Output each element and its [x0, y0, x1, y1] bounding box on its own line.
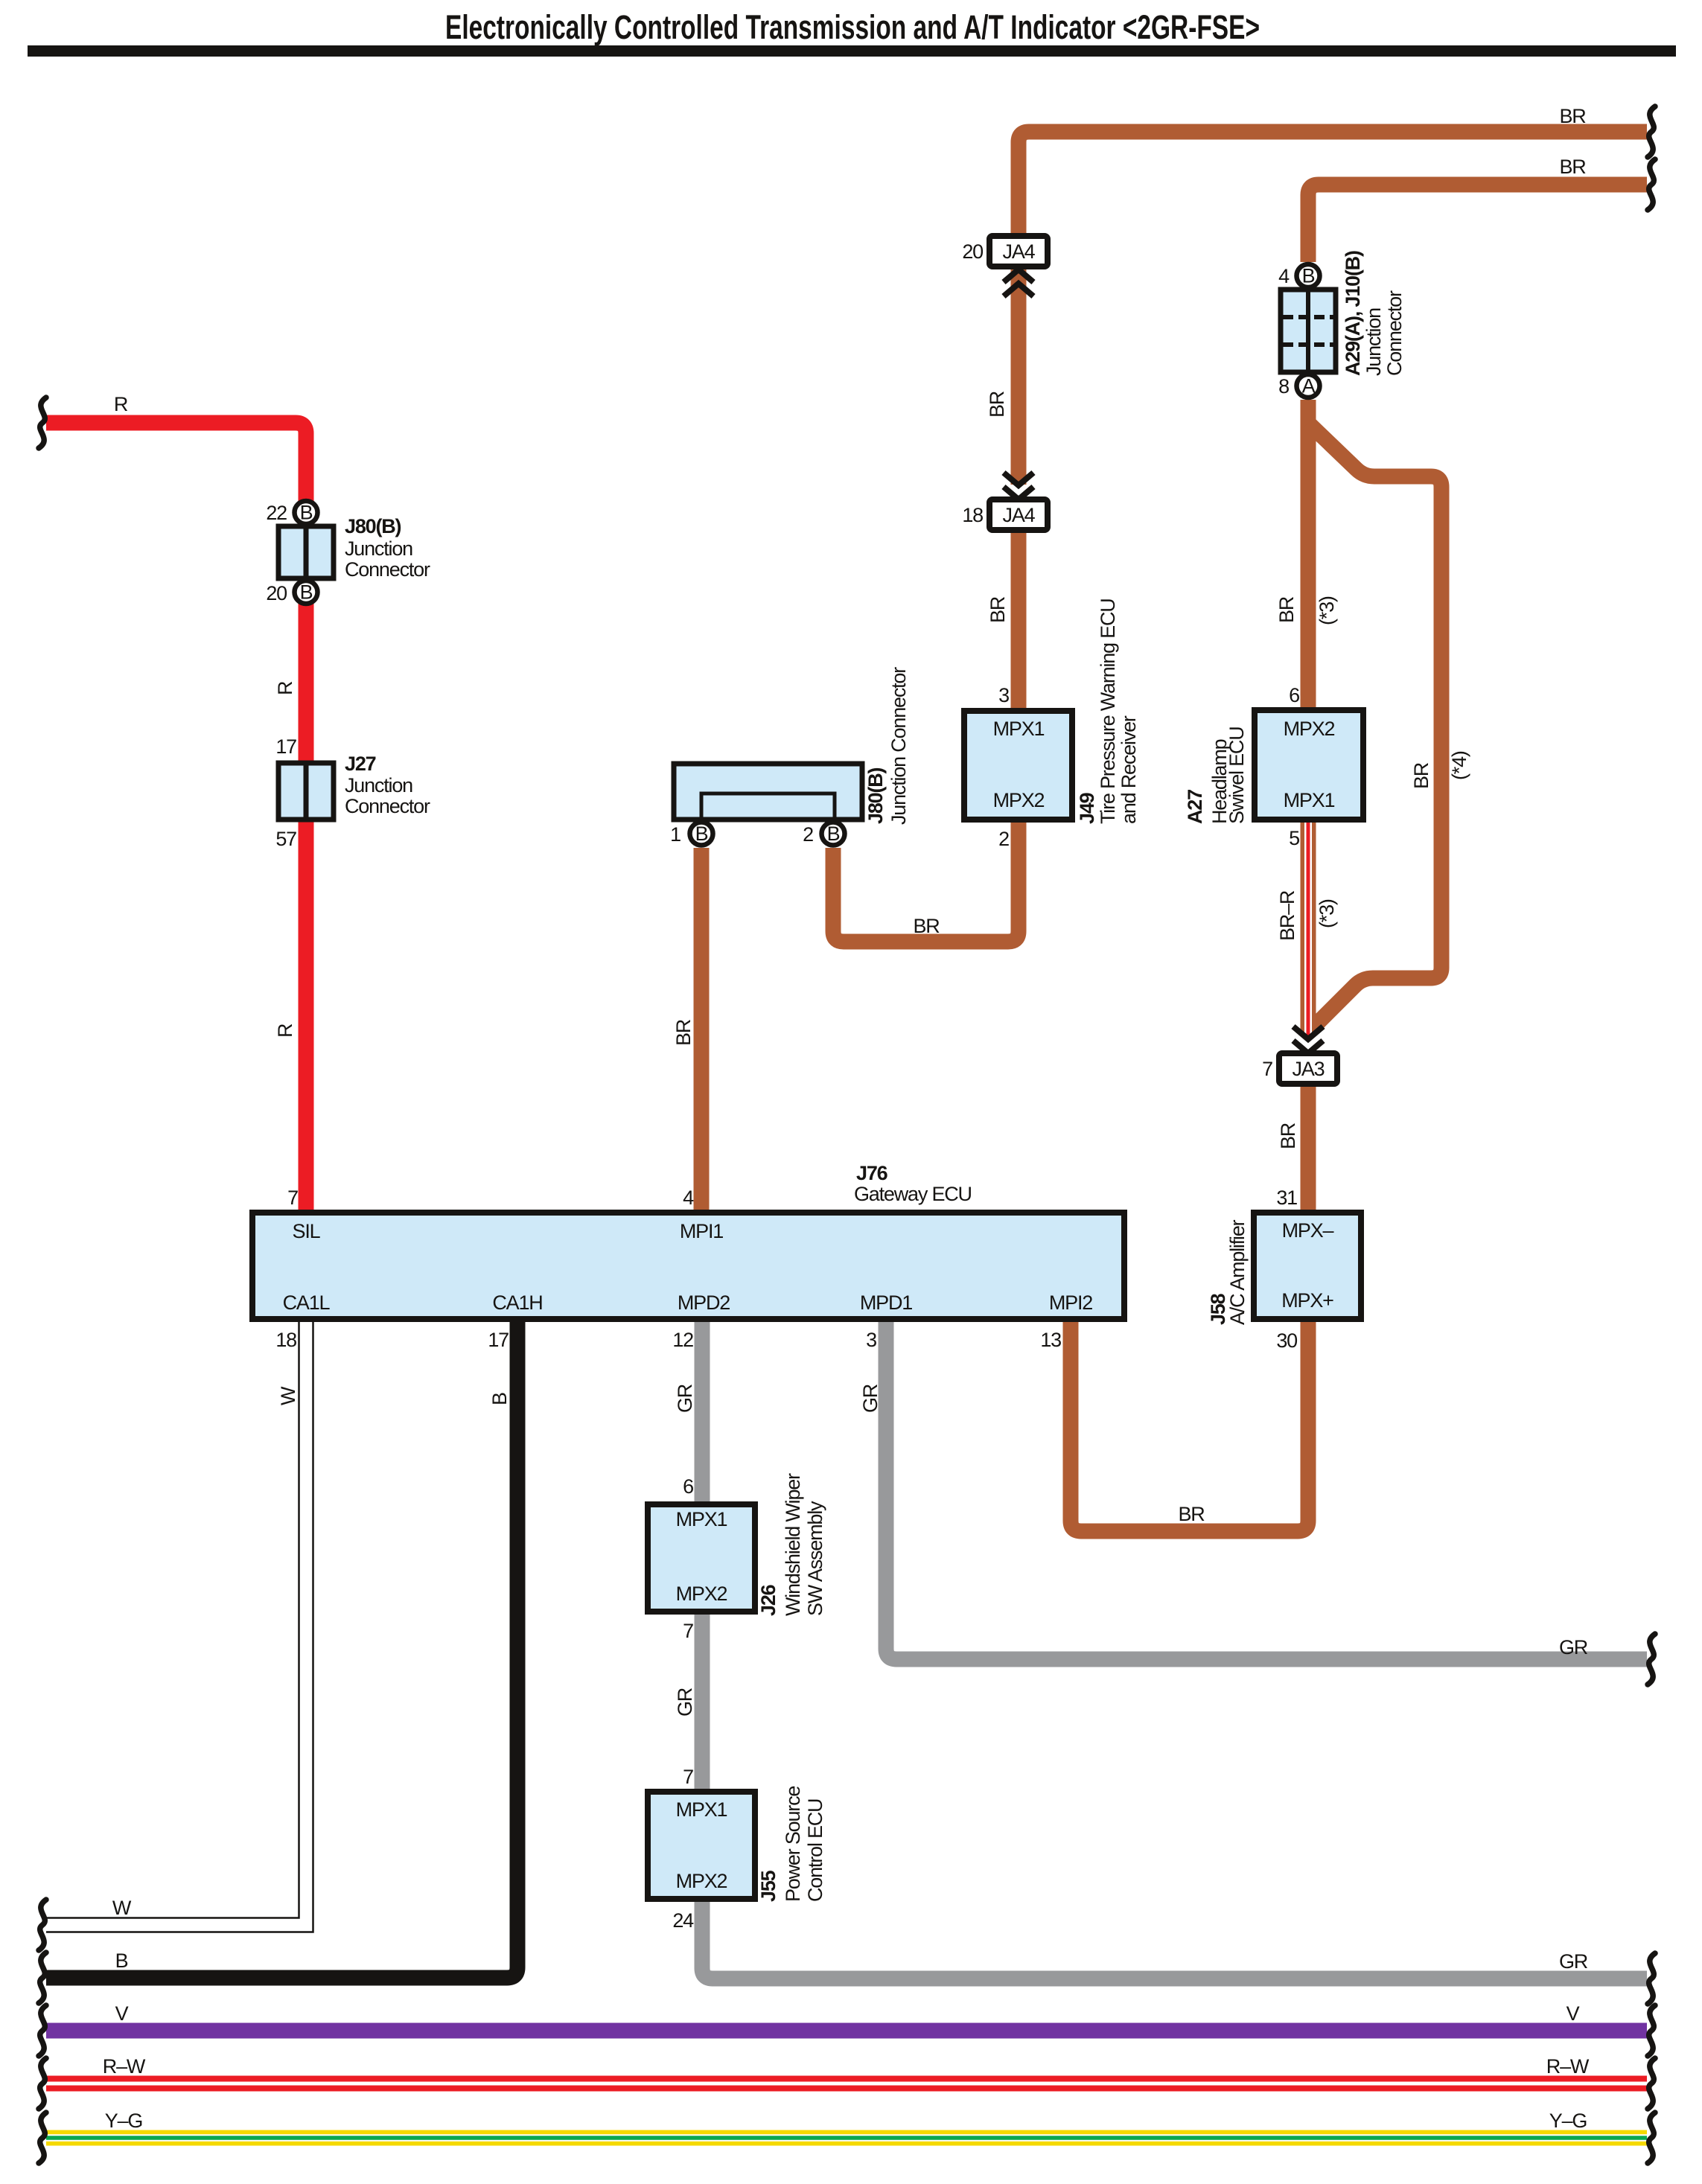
svg-text:7: 7: [683, 1766, 693, 1788]
svg-text:R–W: R–W: [103, 2055, 146, 2078]
svg-text:R: R: [114, 393, 128, 415]
svg-text:MPX1: MPX1: [676, 1508, 727, 1530]
svg-text:18: 18: [962, 504, 983, 526]
svg-text:BR: BR: [1275, 596, 1298, 623]
svg-text:BR: BR: [1277, 1123, 1299, 1149]
svg-text:CA1H: CA1H: [492, 1291, 542, 1314]
svg-text:BR: BR: [986, 391, 1008, 418]
svg-text:Gateway ECU: Gateway ECU: [854, 1183, 972, 1205]
svg-text:8: 8: [1278, 375, 1289, 397]
svg-text:20: 20: [266, 582, 287, 604]
svg-text:BR–R: BR–R: [1276, 890, 1298, 941]
svg-text:BR: BR: [987, 596, 1009, 623]
svg-text:30: 30: [1276, 1329, 1297, 1352]
svg-text:20: 20: [962, 240, 983, 263]
svg-text:MPX1: MPX1: [993, 718, 1045, 740]
svg-text:MPI1: MPI1: [680, 1220, 723, 1242]
svg-text:Windshield Wiper: Windshield Wiper: [782, 1473, 804, 1616]
svg-text:GR: GR: [1559, 1950, 1588, 1973]
svg-text:B: B: [1302, 265, 1315, 287]
svg-text:J80(B): J80(B): [864, 767, 887, 824]
svg-text:3: 3: [998, 684, 1009, 706]
svg-text:MPI2: MPI2: [1049, 1291, 1092, 1314]
svg-text:4: 4: [683, 1187, 694, 1209]
svg-text:R: R: [274, 1024, 296, 1038]
svg-text:B: B: [695, 823, 708, 845]
svg-text:CA1L: CA1L: [283, 1291, 331, 1314]
svg-text:Junction: Junction: [345, 537, 412, 560]
svg-text:J80(B): J80(B): [345, 515, 401, 537]
svg-text:J76: J76: [856, 1162, 888, 1184]
svg-text:1: 1: [670, 823, 681, 846]
svg-text:BR: BR: [1559, 105, 1586, 127]
svg-text:22: 22: [266, 502, 287, 524]
svg-text:7: 7: [287, 1187, 298, 1209]
svg-text:V: V: [1566, 2002, 1580, 2025]
svg-text:17: 17: [488, 1329, 509, 1351]
svg-text:2: 2: [998, 828, 1009, 850]
svg-text:Junction: Junction: [345, 774, 412, 796]
svg-text:Swivel ECU: Swivel ECU: [1225, 727, 1248, 824]
svg-text:SIL: SIL: [293, 1220, 321, 1242]
svg-text:MPX1: MPX1: [1284, 789, 1335, 811]
svg-text:2: 2: [803, 823, 813, 846]
svg-text:6: 6: [683, 1475, 693, 1498]
svg-text:R–W: R–W: [1546, 2055, 1590, 2078]
svg-text:24: 24: [672, 1909, 694, 1932]
svg-text:A27: A27: [1184, 790, 1206, 824]
svg-text:Junction: Junction: [1362, 308, 1385, 376]
svg-text:BR: BR: [1178, 1503, 1205, 1525]
svg-text:J26: J26: [757, 1584, 780, 1616]
svg-text:Connector: Connector: [345, 558, 430, 581]
svg-text:J49: J49: [1076, 792, 1098, 824]
svg-text:Tire Pressure Warning ECU: Tire Pressure Warning ECU: [1097, 598, 1119, 824]
svg-text:W: W: [277, 1386, 299, 1405]
svg-text:J55: J55: [757, 1870, 780, 1902]
svg-text:57: 57: [275, 828, 296, 850]
svg-text:MPX–: MPX–: [1282, 1219, 1334, 1242]
svg-text:GR: GR: [674, 1384, 696, 1413]
svg-text:7: 7: [683, 1620, 693, 1642]
svg-text:MPX2: MPX2: [676, 1870, 727, 1892]
svg-text:Power Source: Power Source: [782, 1787, 804, 1902]
svg-text:BR: BR: [913, 915, 940, 937]
svg-text:and Receiver: and Receiver: [1118, 715, 1140, 824]
svg-text:JA3: JA3: [1293, 1058, 1325, 1080]
svg-text:(*3): (*3): [1316, 596, 1338, 625]
svg-text:GR: GR: [674, 1688, 696, 1717]
svg-text:A: A: [1302, 375, 1316, 397]
svg-text:(*3): (*3): [1316, 899, 1338, 928]
svg-text:31: 31: [1276, 1187, 1297, 1209]
svg-text:A/C Amplifier: A/C Amplifier: [1226, 1219, 1249, 1325]
svg-text:J27: J27: [345, 753, 376, 775]
svg-text:B: B: [115, 1950, 128, 1972]
svg-text:17: 17: [275, 735, 296, 758]
svg-text:7: 7: [1262, 1058, 1272, 1080]
svg-text:B: B: [300, 502, 313, 524]
svg-text:18: 18: [275, 1329, 296, 1351]
svg-text:MPX1: MPX1: [676, 1798, 727, 1821]
svg-text:BR: BR: [1559, 156, 1586, 178]
svg-text:JA4: JA4: [1003, 504, 1036, 526]
svg-text:MPD2: MPD2: [678, 1291, 730, 1314]
svg-text:6: 6: [1289, 684, 1299, 706]
svg-text:JA4: JA4: [1003, 240, 1036, 263]
svg-text:Control ECU: Control ECU: [804, 1799, 826, 1902]
svg-text:W: W: [112, 1897, 132, 1919]
svg-text:BR: BR: [672, 1019, 695, 1046]
svg-text:BR: BR: [1410, 762, 1432, 789]
svg-text:A29(A), J10(B): A29(A), J10(B): [1342, 251, 1364, 376]
svg-text:MPX2: MPX2: [993, 789, 1045, 811]
svg-text:4: 4: [1278, 265, 1290, 287]
svg-text:GR: GR: [1559, 1636, 1588, 1658]
svg-text:MPX2: MPX2: [1284, 718, 1335, 740]
svg-text:Electronically Controlled Tran: Electronically Controlled Transmission a…: [445, 8, 1260, 46]
svg-text:Y–G: Y–G: [1549, 2110, 1587, 2132]
svg-text:12: 12: [672, 1329, 693, 1351]
svg-text:Junction Connector: Junction Connector: [887, 667, 910, 825]
svg-text:B: B: [300, 581, 313, 604]
svg-text:Connector: Connector: [1383, 290, 1406, 376]
svg-text:Y–G: Y–G: [105, 2110, 142, 2132]
svg-text:13: 13: [1040, 1329, 1061, 1351]
svg-text:Connector: Connector: [345, 795, 430, 817]
svg-text:3: 3: [866, 1329, 876, 1351]
svg-text:SW Assembly: SW Assembly: [804, 1501, 826, 1616]
svg-text:B: B: [488, 1393, 511, 1405]
svg-text:(*4): (*4): [1448, 751, 1470, 780]
svg-text:MPX2: MPX2: [676, 1583, 727, 1605]
svg-text:R: R: [274, 681, 296, 695]
svg-text:MPX+: MPX+: [1281, 1289, 1333, 1312]
svg-text:5: 5: [1289, 827, 1299, 849]
svg-text:MPD1: MPD1: [860, 1291, 912, 1314]
svg-text:V: V: [115, 2002, 129, 2025]
svg-text:GR: GR: [859, 1384, 882, 1413]
svg-text:B: B: [827, 823, 840, 845]
